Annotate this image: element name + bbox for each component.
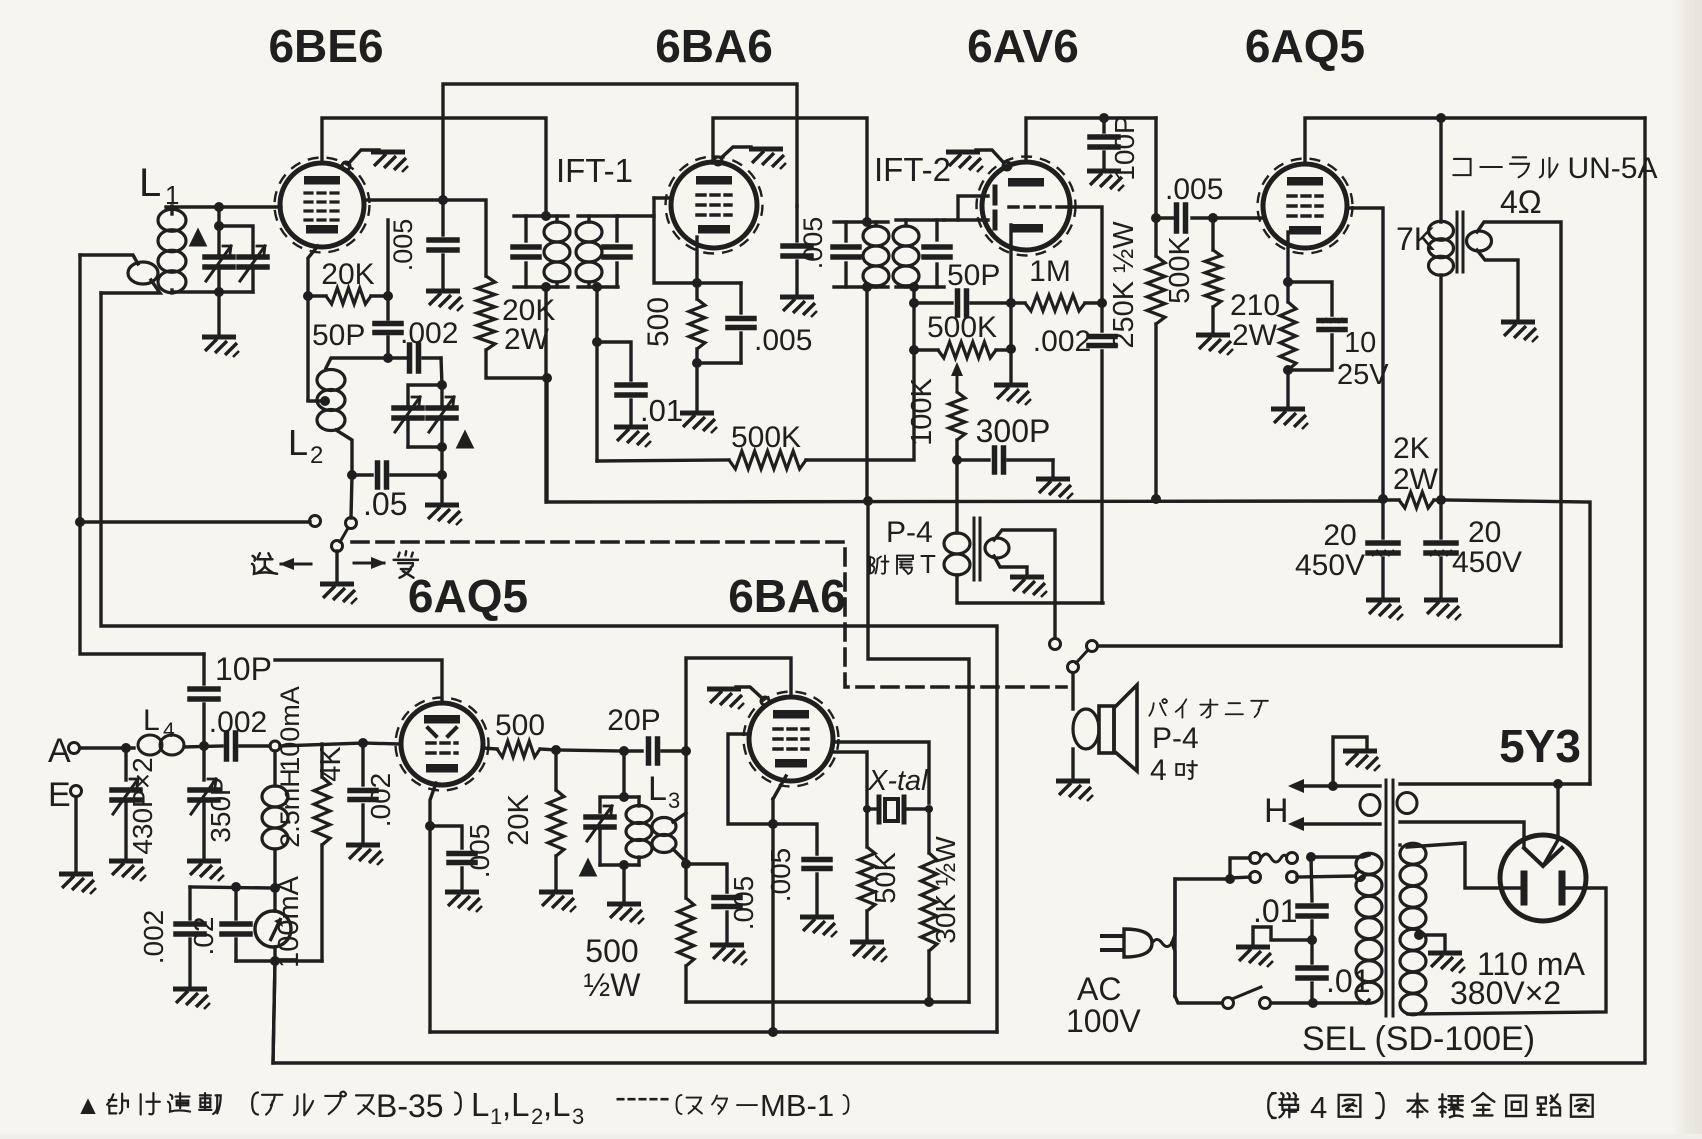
terminal selector contacts [1287,872,1298,883]
wire RX grid to crystal [834,742,929,803]
wire primary bottom lead [1366,1000,1369,1003]
terminal primary tap [1356,872,1365,881]
wire B+ down leg to TX box [868,501,969,1002]
wire RX shield ground [761,697,769,705]
6AV6 grid dashed [1009,205,1070,208]
svg-text:100mA: 100mA [273,875,305,968]
svg-text:H: H [1264,792,1289,830]
wire IFT-2 primary bottom to B+ bus [865,287,868,501]
capacitor IFT-2 secondary [935,220,938,240]
capacitor .01 lower [1310,942,1313,963]
ground oscillator [425,505,462,525]
tube 6AQ5 V4 [1263,164,1347,248]
label ju (receive) kanji with arrow [354,562,384,565]
svg-text:½W: ½W [584,967,642,1003]
wire P-4 secondary bottom to ground [994,556,1027,574]
svg-text:5Y3: 5Y3 [1499,720,1581,772]
wire osc variable cap frame top [408,385,442,404]
svg-text:450V: 450V [1452,546,1522,579]
resistor 210 2W cathode [1286,282,1289,302]
wire L3 secondary leads [673,813,686,822]
svg-text:.005: .005 [464,824,495,879]
svg-text:4: 4 [1150,754,1167,787]
svg-text:2W: 2W [1232,319,1278,352]
wire OPT secondary top to speaker line [1477,222,1561,646]
svg-text:-----: ----- [615,1078,670,1115]
mark ganged triangle [189,227,208,246]
svg-text:50K: 50K [870,852,902,904]
node padder top [437,380,447,390]
ground L1 tank [202,337,239,357]
wire switch arm feed [351,475,352,518]
svg-text:.02: .02 [188,917,219,956]
svg-text:100P: 100P [1109,115,1140,180]
terminal switch pole [332,541,343,552]
svg-text:4: 4 [163,719,175,742]
svg-text:20: 20 [1323,519,1356,552]
svg-text:500: 500 [495,709,545,742]
svg-text:500K: 500K [927,311,997,344]
svg-text:450V: 450V [1295,549,1365,582]
wire osc var cap frame bottom [406,422,409,447]
node cathode bypass [425,821,435,831]
node antenna rail / switch line [75,517,85,527]
wire bus right end to rectifier filament [1443,500,1590,784]
wire TX plate line [275,660,442,701]
svg-text:MB-1: MB-1 [760,1088,834,1123]
node IFT-2 primary bottom [862,282,872,292]
svg-text:500: 500 [585,933,638,969]
svg-text:25V: 25V [1337,359,1389,391]
capacitor .05 to switch [347,470,357,480]
capacitor 10P feedback [202,654,205,684]
svg-text:20: 20 [1468,516,1501,549]
node .005 coupling branch [1151,213,1161,223]
ground HV center tap [1428,953,1465,973]
coil output transformer primary [1429,221,1454,240]
resistor 30K halfwatt [927,809,930,853]
5Y3 plates [1521,874,1528,902]
ground filter 1 [1366,600,1403,620]
capacitor .005 screen bypass at 6BE6 [441,200,444,235]
svg-text:.005: .005 [728,876,759,931]
node tank bottom [214,287,224,297]
wire RX grid return down [771,824,774,1032]
capacitor .005 RX [773,824,817,854]
coil IFT-2 secondary [893,226,919,246]
resistor 50K [865,809,868,847]
ground 6BE6 shield [371,152,408,172]
coil output transformer secondary [1467,231,1492,251]
wire to ground [217,292,220,334]
capacitor 100P plate bypass [1102,118,1105,132]
svg-text:SEL (SD-100E): SEL (SD-100E) [1302,1020,1535,1058]
svg-text:IFT-1: IFT-1 [556,152,633,189]
caption: triangle mark is ganged (Alps B-35) [80,1098,95,1114]
node L1 top junction [214,202,224,212]
label coral UN-5A speaker [1453,159,1470,175]
svg-text:20K: 20K [503,794,535,846]
wire to .01 cap [597,342,631,380]
terminal switch contact upper [346,518,357,529]
capacitor .005 cathode bypass [739,283,742,313]
svg-text:IFT-2: IFT-2 [874,151,951,188]
svg-text:1M: 1M [1029,255,1071,288]
wire tank to ground [622,865,625,901]
ground .01 [614,427,651,447]
wire to tank [556,750,624,751]
wire filament tap to B+ line [1543,784,1558,866]
coil P-4 primary [944,533,970,554]
wire 6BE6 plate to IFT-1 primary top [322,118,546,216]
capacitor .002 osc [388,356,406,359]
wire L1 return down to transmitter box [101,293,997,1032]
wire L2 tap to cathode line [308,399,325,402]
svg-text:.005: .005 [765,848,796,903]
label sou (send) kanji with arrow [252,553,277,573]
ground RX shield [707,689,744,709]
coil speaker voice coil [1073,709,1099,749]
resistor 100K [949,392,965,440]
wire HV bottom to right plate [1408,888,1606,1014]
svg-text:500K: 500K [1164,235,1196,303]
ground 350P [187,861,224,881]
wire screen-grid bus (6BE6 g2/g4 to 6BA6 g2) [443,84,797,206]
svg-text:2W: 2W [1393,463,1439,496]
wire L1 top to 6BE6 grid [166,205,281,208]
ground 20K TX [539,892,576,912]
arrow heater H top [1288,779,1304,793]
resistor 500K grid [1211,218,1214,250]
variable capacitor osc trimmer [428,405,456,411]
ground 430P [109,861,146,881]
mark ganged triangle osc [456,429,475,448]
svg-text:,L: ,L [543,1086,571,1123]
wire plug to circuits [1172,879,1175,943]
wire pole to ground [335,551,338,581]
svg-text:3: 3 [668,788,680,813]
svg-text:L: L [648,770,667,808]
variable capacitor trimmer [239,254,267,260]
wire L3 secondary bottom down through 500 halfwatt [684,751,687,898]
svg-text:2.5mH: 2.5mH [275,768,305,848]
svg-text:E: E [48,776,71,814]
ground 50K [850,942,887,962]
node choke bottom [270,883,280,893]
wire L1 primary bottom lead [101,280,160,293]
svg-text:500K: 500K [731,421,801,454]
svg-text:210: 210 [1230,289,1280,322]
crystal X-tal [863,805,871,813]
svg-text:.002: .002 [1033,325,1091,358]
svg-text:6BA6: 6BA6 [655,20,773,72]
ground TX cathode cap [445,892,482,912]
svg-text:.002: .002 [400,317,458,350]
core P-4 [973,518,976,580]
svg-text:L: L [139,161,161,205]
tube 5Y3 rectifier [1500,835,1586,921]
svg-text:4: 4 [1310,1090,1327,1125]
ground 300P [1036,479,1073,499]
meter 100mA [273,888,276,911]
wire to AC plug upper [1175,879,1230,996]
variable capacitor tuning (main) [205,254,233,260]
capacitor .002 antenna coupling [224,733,230,759]
wire heater winding top [1400,782,1590,785]
capacitor .01 AVC filter [617,382,645,388]
wire IFT-2 secondary top to 6AV6 diode plates [944,196,988,220]
wire to 6AQ5 grid [280,743,364,746]
node HV center tap [1414,930,1424,940]
ground E [59,874,96,894]
node osc tank top [383,353,393,363]
capacitor 50P osc grid [386,296,389,319]
capacitor .005 coupling [1174,205,1180,231]
svg-text:T: T [920,549,936,579]
wire 6AV6 grid out [1070,207,1102,300]
coil L2 oscillator [317,370,345,391]
wire P-4 primary bottom to 6AV6 grid line [957,575,1103,603]
coil 2.5mH choke [273,751,276,786]
capacitor 20/450V filter 2 [1439,500,1442,538]
label fuzoku-T (attached transformer) [870,556,889,574]
wire osc ground leg [440,475,443,502]
wire 6BE6 osc grid down [386,220,389,296]
wire 6AQ5 plate to output transformer [1305,118,1645,162]
wire tap to selector [1297,876,1355,877]
coil IFT-1 primary [544,222,570,242]
wire P-4 secondary top to speaker switch [994,530,1055,638]
mark ganged triangle L3 [579,857,598,876]
svg-text:AC: AC [1077,971,1121,1007]
svg-text:30K ½W: 30K ½W [930,836,961,944]
node IFT-1 secondary bottom [592,282,602,292]
node heater ground tap [1328,781,1338,791]
AC plug [1100,936,1124,950]
capacitor .005 screen bypass at 6BA6 [795,206,798,241]
wire .01 midpoint to ground [1253,927,1312,944]
pot wiper arrow [956,372,959,392]
dashed mechanical link switch to speaker switch [352,542,1066,687]
svg-text:100mA: 100mA [275,686,305,772]
wire primary top lead [1311,855,1369,857]
capacitor 20P [624,749,642,752]
svg-text:20P: 20P [607,704,660,737]
coil L1 primary single loop [128,262,158,284]
coil L1 secondary [158,209,186,231]
variable capacitor 350P [202,746,205,780]
ground switch [320,584,357,604]
wire after L4 [184,746,222,747]
svg-text:7K: 7K [1396,221,1435,257]
svg-text:.01: .01 [1326,963,1370,999]
wire 6BA6 cathode [695,237,698,283]
wire padder bottom to .05 node [440,447,443,475]
node IFT-2 primary top [862,217,872,227]
capacitor IFT-2 primary [833,244,859,250]
svg-text:50P: 50P [947,259,1000,292]
svg-text:500: 500 [642,297,675,347]
wire tuning caps bottom rail [217,271,220,292]
svg-text:P-4: P-4 [1152,722,1199,755]
wire 6AQ5 cathode [1286,232,1289,282]
svg-text:.002: .002 [365,773,396,828]
svg-text:6BE6: 6BE6 [268,20,383,72]
resistor 500 TX [483,748,497,749]
wire AVC line down and left (500K) [806,287,914,460]
svg-text:6AQ5: 6AQ5 [1245,20,1365,72]
wire E to ground [74,797,77,871]
svg-text:.01: .01 [640,393,683,428]
wire meter shunt line [236,959,322,962]
tube 6AV6 V3 [982,162,1070,250]
wire 6BE6 cathode down [308,246,318,400]
ground .002 modulator [173,989,210,1009]
wire junction down to tuning caps [217,207,220,226]
capacitor 300P [957,458,989,461]
wire bottom return rail [273,118,1645,1063]
ground 100P [1087,171,1124,191]
IFT-1 primary frame [514,214,568,217]
node cathode / 20K junction [303,291,313,301]
resistor 20K oscillator grid leak [326,288,371,304]
node IFT-1 primary top [541,211,551,221]
wire 6BA6 plate to IFT-2 primary top [713,118,867,222]
selector link [1261,854,1287,862]
capacitor .02 [234,887,237,919]
wire AC lower to switch [1175,996,1222,1003]
wire HV top to left plate [1407,843,1520,888]
wire 6BE6 shield to ground [342,162,350,170]
tank frame bottom [600,863,639,866]
wire to L2 top [326,358,388,368]
wire 20K2W bottom to B+ rail [486,350,547,378]
svg-text:50P: 50P [312,319,365,352]
svg-text:.05: .05 [363,486,407,522]
capacitor .005 TX cathode [430,826,462,848]
svg-text:.01: .01 [1253,893,1297,929]
coil L4 antenna choke [138,735,162,755]
svg-text:20K: 20K [321,258,374,291]
node 50P branch [909,298,919,308]
resistor 2K 2W bus dropper [1399,492,1434,508]
capacitor .01 upper [1311,857,1312,901]
wire 6AQ5 screen to B+ [1347,208,1383,499]
node .01 branch [592,337,602,347]
resistor 250K half-watt plate load [1147,256,1165,324]
6AV6 diode plates [993,187,998,203]
variable capacitor 430Px2 [124,748,127,780]
capacitor .002 modulator [190,887,275,888]
svg-text:6AV6: 6AV6 [967,20,1079,72]
svg-text:.005: .005 [798,217,828,270]
heater winding 6.3V [1294,784,1380,787]
variable capacitor TX tank [586,814,614,820]
svg-text:1: 1 [490,1104,502,1129]
resistor 4K [320,744,323,777]
wire 20P node to RX plate [686,658,791,751]
svg-text:.005: .005 [754,324,812,357]
svg-text:.002: .002 [209,706,267,739]
wire selector commons [1230,858,1250,879]
svg-text:L: L [471,1086,489,1123]
tube 6BA6 RX V6 [749,697,833,781]
ground .005 RX [800,917,837,937]
terminal P-4 transformer lead [1050,639,1061,650]
coil L3 primary [626,806,652,824]
svg-text:L: L [288,422,308,463]
wire cathode to ground [1286,370,1289,406]
ground 6AQ5 cathode [1271,409,1308,429]
capacitor .002 grid bypass [361,743,364,785]
ground 6AV6 shield [946,152,983,172]
wire L1 primary top lead to left rail [80,255,138,264]
svg-text:250K ½W: 250K ½W [1108,221,1140,349]
coil HV secondary 380Vx2 [1398,843,1401,846]
wire RX cathode lead [773,776,786,799]
wire 300P to ground [1051,460,1054,476]
ground .005 L3 [710,945,747,965]
ground 6BA6 shield [749,149,786,169]
capacitor 50P AVC [914,301,952,304]
capacitor IFT-1 secondary [615,216,618,241]
svg-text:.005: .005 [1165,173,1223,206]
node 100P [1099,113,1109,123]
label Pioneer katakana [1149,699,1167,716]
wire speaker switch arm [1076,650,1088,663]
svg-text:2W: 2W [504,323,550,356]
node IFT-2 secondary bottom / AVC [909,282,919,292]
wire cathode to ground [695,363,698,410]
coil L3 secondary [652,818,676,836]
svg-text:430P×2: 430P×2 [127,757,158,854]
wire receive line from antenna rail [80,520,310,523]
ground heater [1343,751,1380,771]
node volume pot left [909,345,919,355]
resistor 500K AVC [729,451,806,469]
svg-text:10: 10 [1344,327,1376,359]
node L2 tap [320,396,330,406]
svg-text:B-35: B-35 [376,1088,444,1124]
svg-text:350P: 350P [205,777,236,842]
ground speaker [1056,781,1093,801]
wire 6AV6 shield ground [1003,162,1011,170]
terminal speaker switch contact [1087,641,1098,652]
tube 6BA6 V2 [671,162,757,248]
wire plate load leg [1154,118,1157,256]
svg-text:2: 2 [531,1104,543,1129]
coil IFT-1 secondary [576,222,602,242]
5Y3 filament [1524,848,1562,866]
svg-text:3: 3 [572,1104,584,1129]
svg-text:2: 2 [310,442,323,469]
capacitor .002 grid [1100,306,1103,331]
wire 6AQ5 grid coupling [1192,216,1263,219]
capacitor IFT-1 primary [513,244,539,250]
ground OPT secondary [1501,322,1538,342]
svg-text:.002: .002 [138,910,169,965]
svg-text:A: A [48,732,71,770]
resistor 20K TX [554,750,557,790]
wire OPT secondary bottom to ground [1477,250,1518,319]
core output transformer [1456,212,1459,272]
power transformer core [1385,780,1388,1016]
node 1M right [1097,298,1107,308]
ground 6BA6 cathode [680,413,717,433]
wire AVC from IFT-1 secondary [595,287,598,461]
svg-text:100K: 100K [906,377,938,445]
svg-text:10P: 10P [215,651,272,687]
